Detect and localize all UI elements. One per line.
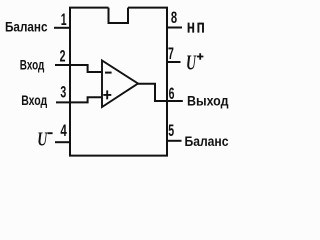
svg-text:Вход: Вход: [20, 57, 45, 73]
op-amp A1: [102, 61, 138, 108]
pin 3 lead wire to non-inverting input: [56, 97, 102, 102]
svg-text:3: 3: [60, 82, 66, 101]
pin 7 lead wire: [167, 61, 181, 63]
svg-text:Вход: Вход: [21, 92, 47, 108]
inverting input minus sign: [105, 72, 112, 74]
pin 5 lead wire: [167, 140, 182, 142]
svg-text:Выход: Выход: [187, 92, 229, 108]
IC package outline U1: [70, 8, 167, 156]
pin 1 lead wire: [54, 27, 70, 29]
svg-text:2: 2: [60, 46, 66, 65]
superscript minus of U-minus: [48, 132, 53, 134]
svg-text:Баланс: Баланс: [5, 18, 48, 34]
output wire to pin 6: [138, 84, 183, 101]
svg-text:6: 6: [169, 84, 175, 103]
pin 4 lead wire: [55, 141, 70, 143]
svg-text:5: 5: [168, 120, 174, 139]
svg-text:4: 4: [60, 122, 66, 141]
non-inverting input plus sign: [103, 90, 111, 99]
svg-text:U: U: [186, 51, 197, 75]
svg-text:Баланс: Баланс: [185, 133, 229, 149]
svg-text:8: 8: [171, 9, 177, 28]
svg-text:7: 7: [168, 43, 174, 62]
label NC pin 8: [189, 23, 204, 33]
pin 2 lead wire to inverting input: [55, 65, 102, 72]
superscript plus of U-plus: [197, 53, 203, 60]
pin 8 lead wire: [167, 27, 182, 29]
svg-text:U: U: [37, 129, 48, 151]
svg-text:1: 1: [61, 10, 67, 29]
package notch (pin 1 index): [109, 8, 129, 23]
